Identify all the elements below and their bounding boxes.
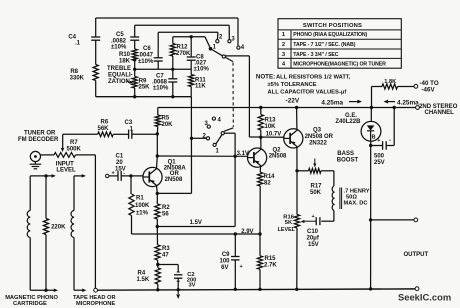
wire R15 to bottom rail <box>258 269 261 291</box>
wire 1.8K to terminal <box>398 84 418 88</box>
label output <box>404 252 429 258</box>
svg-text:6V: 6V <box>221 265 228 271</box>
svg-text:C6: C6 <box>143 46 151 52</box>
wire coil to C10 <box>321 211 334 222</box>
svg-text:TAPE - 7 1/2" / SEC. (NAB): TAPE - 7 1/2" / SEC. (NAB) <box>293 42 355 48</box>
capacitor C1 <box>109 153 126 181</box>
svg-text:5K: 5K <box>285 220 293 226</box>
svg-text:100: 100 <box>219 259 230 265</box>
svg-text:-46V: -46V <box>422 87 436 94</box>
switch S1a contact 3 <box>228 36 236 42</box>
svg-text:1.8K: 1.8K <box>384 79 396 85</box>
svg-text:TAPE - 3 3/4" / SEC: TAPE - 3 3/4" / SEC <box>293 52 339 58</box>
label -22V <box>286 97 300 104</box>
wire C4-R8 <box>95 40 97 64</box>
label treble equalization with arrow <box>107 66 133 85</box>
svg-text:±10%: ±10% <box>138 59 154 65</box>
svg-text:-22V: -22V <box>286 97 300 104</box>
resistor R4 <box>137 265 161 285</box>
svg-text:R6: R6 <box>101 120 109 126</box>
svg-text:270K: 270K <box>176 51 191 57</box>
wire jack to R7 <box>41 154 55 156</box>
label Q2 <box>269 148 287 160</box>
wire R11 bottom <box>190 87 192 97</box>
node line mid EQ (y=69.3) <box>135 68 192 70</box>
wire C6 bottom <box>157 61 159 69</box>
switch positions table <box>278 19 401 68</box>
svg-text:220K: 220K <box>51 225 66 231</box>
resistor 1.8K <box>382 79 398 89</box>
svg-text:2N322: 2N322 <box>309 141 327 147</box>
phono jack J1 <box>30 151 40 161</box>
svg-text:PHONO (RIAA EQUALIZATION): PHONO (RIAA EQUALIZATION) <box>293 32 367 38</box>
svg-text:47: 47 <box>162 253 169 259</box>
potentiometer R16 (level) <box>278 171 300 233</box>
svg-text:±10%: ±10% <box>153 86 169 92</box>
resistor R11 <box>189 75 207 90</box>
label Q3 <box>305 128 334 147</box>
wire C4 column top <box>95 18 97 37</box>
wire 10.7V node <box>249 130 284 138</box>
wire 2.9V line <box>132 229 261 235</box>
label 4.25ma arrow right <box>321 100 362 107</box>
svg-text:2N508 OR: 2N508 OR <box>305 134 334 140</box>
wire R5 bottom <box>156 127 159 134</box>
svg-text:BOOST: BOOST <box>337 157 359 163</box>
svg-text:ZATION: ZATION <box>108 79 130 85</box>
transistor Q2 <box>248 148 267 167</box>
svg-text:B: B <box>372 135 376 141</box>
svg-text:FM DECODER: FM DECODER <box>18 137 59 143</box>
svg-text:TUNER OR: TUNER OR <box>24 131 56 137</box>
svg-text:100K: 100K <box>135 203 150 209</box>
switch S1b contact 4 <box>212 117 221 124</box>
wire phono source bottom <box>30 288 58 292</box>
wire top rail C (to switch contact 2) <box>158 32 218 39</box>
svg-text:.1: .1 <box>75 41 81 47</box>
wire -22V rail <box>158 106 420 110</box>
inductor tape head <box>71 211 74 238</box>
node line R12/C8 (y=36.8) <box>173 35 210 47</box>
wire C9 column <box>234 232 237 256</box>
svg-text:-: - <box>389 138 391 144</box>
svg-text:BASS: BASS <box>337 151 354 157</box>
svg-text:2.7K: 2.7K <box>264 263 277 269</box>
switch S1a wiper <box>212 50 233 62</box>
svg-text:2N508: 2N508 <box>269 153 287 159</box>
svg-text:R7: R7 <box>70 140 78 146</box>
input terminal <box>106 174 109 177</box>
wire 1.5V line <box>157 220 235 227</box>
resistor R6 <box>98 120 114 137</box>
svg-text:LEVEL: LEVEL <box>56 167 76 173</box>
wire feedback vertical <box>190 97 192 194</box>
switch S1b contact 1 <box>213 143 220 154</box>
inductor .7 henry <box>332 186 341 211</box>
svg-text:R14: R14 <box>264 174 276 180</box>
label 3.1V <box>237 151 249 157</box>
ground symbol <box>30 162 42 169</box>
wire C10 to R16 wiper <box>301 220 317 223</box>
svg-text:1.5K: 1.5K <box>137 277 150 283</box>
label 4.25ma arrow left <box>384 100 420 107</box>
capacitor C6 <box>138 46 163 65</box>
svg-text:R13: R13 <box>265 118 277 124</box>
label GE Z40L22B <box>335 113 361 125</box>
wire top rail B (to switch contact 3) <box>135 25 230 39</box>
svg-text:.0047: .0047 <box>138 53 154 59</box>
svg-text:4.25ma: 4.25ma <box>321 100 343 107</box>
potentiometer R17 <box>309 168 323 196</box>
svg-text:C9: C9 <box>222 252 230 258</box>
svg-text:R5: R5 <box>162 116 170 122</box>
potentiometer R9 (treble) <box>132 77 150 91</box>
wire Q3 emitter <box>295 147 298 173</box>
svg-text:Z40L22B: Z40L22B <box>335 119 361 125</box>
svg-text:330K: 330K <box>70 76 85 82</box>
wire S1a wiper output <box>225 56 249 137</box>
capacitor C2 <box>174 272 196 288</box>
svg-text:R3: R3 <box>162 246 170 252</box>
wire C2 to bottom rail <box>177 278 180 291</box>
wire Q1 collector to Q2 base <box>157 155 247 158</box>
svg-text:.1: .1 <box>128 127 134 133</box>
svg-text:R17: R17 <box>311 184 323 190</box>
svg-text:C3: C3 <box>125 120 133 126</box>
svg-text:3V: 3V <box>189 282 196 288</box>
capacitor C3 <box>125 120 134 139</box>
wire S1b to 1.5V corner <box>234 226 236 228</box>
wire R4 to bottom rail <box>156 284 159 291</box>
wire R5 top <box>157 108 159 116</box>
svg-text:25K: 25K <box>139 85 151 91</box>
resistor R5 <box>155 115 173 128</box>
svg-text:±5% TOLERANCE: ±5% TOLERANCE <box>268 82 317 88</box>
resistor R15 <box>257 234 277 269</box>
potentiometer R7 (input level) <box>54 140 82 158</box>
wire Q2 collector <box>259 136 262 150</box>
svg-text:EQUALI-: EQUALI- <box>108 73 133 79</box>
switch S1b contact 3 <box>205 121 211 128</box>
wire R12 bottom <box>171 56 174 71</box>
svg-text:2.9V: 2.9V <box>241 229 253 235</box>
svg-text:MICROPHONE(MAGNETIC) OR TUNER: MICROPHONE(MAGNETIC) OR TUNER <box>293 62 386 68</box>
svg-text:ALL RESISTORS 1/2 WATT,: ALL RESISTORS 1/2 WATT, <box>276 75 351 81</box>
svg-text:Q3: Q3 <box>313 128 322 134</box>
label 2nd stereo channel <box>419 104 458 116</box>
wire EQ bottom rail <box>96 96 192 98</box>
wire R9 to EQ bottom rail <box>133 88 136 98</box>
wire C7 to EQ bottom rail <box>171 82 174 98</box>
wire tape coil bottom <box>74 238 86 292</box>
svg-text:OUTPUT: OUTPUT <box>404 252 429 258</box>
svg-text:C1: C1 <box>116 153 124 159</box>
wire 1.8K branch <box>370 87 382 110</box>
switch S1b contact 2 <box>203 133 210 140</box>
wire Q2 emitter <box>259 166 261 172</box>
resistor R2 <box>155 193 171 219</box>
svg-text:500: 500 <box>374 154 385 160</box>
svg-text:NOTE:: NOTE: <box>256 74 275 81</box>
wire C2 branch <box>158 265 178 272</box>
svg-text:1.5V: 1.5V <box>190 220 202 226</box>
wire bass boost top <box>297 170 309 172</box>
watermark <box>398 292 451 303</box>
wire top rail A (to switch contact 4) <box>96 18 238 46</box>
label tuner or fm decoder <box>18 131 59 144</box>
resistor R10 <box>119 49 137 65</box>
svg-text:11K: 11K <box>195 84 206 90</box>
wire phono source top <box>30 174 56 210</box>
capacitor C7 <box>152 69 177 91</box>
svg-text:R15: R15 <box>265 256 277 262</box>
wire Q1 emitter node <box>156 186 192 196</box>
capacitor 500uF <box>374 138 391 166</box>
switch S1a contact 4 <box>237 45 245 51</box>
svg-text:MAX. DC: MAX. DC <box>344 201 368 207</box>
svg-text:18K: 18K <box>119 59 131 65</box>
wire bottom rail <box>94 287 419 292</box>
wire contact2 stub <box>190 137 207 140</box>
svg-text:4.25ma: 4.25ma <box>397 100 419 107</box>
wire 500uF to rail <box>386 106 396 146</box>
svg-text:56: 56 <box>162 212 169 218</box>
wire output tap <box>369 218 418 222</box>
svg-text:50K: 50K <box>310 190 322 196</box>
label tape head or microphone <box>73 295 116 307</box>
svg-text:20K: 20K <box>162 122 174 128</box>
svg-text:20: 20 <box>116 160 123 166</box>
svg-text:82: 82 <box>264 181 271 187</box>
wire C5-R10 <box>134 40 136 49</box>
wire C1 to base node <box>121 174 143 177</box>
wire R14 to 2.9V node <box>258 186 261 236</box>
resistor 220K <box>43 176 66 290</box>
wire Q1 collector <box>156 154 159 168</box>
wire S1b wiper output <box>224 133 235 226</box>
capacitor C4 <box>68 35 100 47</box>
wire R17 to coil <box>321 171 334 186</box>
svg-text:2N508: 2N508 <box>165 177 183 183</box>
wire R16 to bottom rail <box>295 228 298 291</box>
wire C9 to bottom rail <box>234 260 237 291</box>
switch S1a contact 2 <box>216 34 223 42</box>
svg-text:CHANNEL: CHANNEL <box>425 110 455 116</box>
svg-text:C5: C5 <box>116 32 124 38</box>
transistor Q3 <box>284 129 303 148</box>
svg-text:±10%: ±10% <box>111 45 127 51</box>
label Q1 <box>164 159 187 183</box>
wire Q3 collector <box>295 106 298 130</box>
resistor R12 <box>170 37 191 57</box>
svg-text:56K: 56K <box>98 126 110 132</box>
wiper arrow R17 <box>313 159 316 168</box>
label .7 henry <box>344 189 370 207</box>
svg-text:10K: 10K <box>265 124 277 130</box>
resistor R3 <box>155 227 170 261</box>
wire output transistor emitter <box>369 141 372 147</box>
resistor R14 <box>258 172 276 186</box>
wire collector node vertical <box>156 134 158 156</box>
resistor R13 <box>258 106 276 130</box>
svg-text:MICROPHONE: MICROPHONE <box>76 301 115 307</box>
svg-text:SWITCH POSITIONS: SWITCH POSITIONS <box>303 23 362 29</box>
svg-text:15V: 15V <box>115 166 126 172</box>
wire 500uF branch <box>371 145 383 147</box>
resistor R1 <box>129 176 150 234</box>
svg-text:R1: R1 <box>136 196 144 202</box>
svg-text:±1%: ±1% <box>136 211 149 217</box>
inductor phono cartridge <box>27 211 30 238</box>
wire R7 right to down lead <box>76 155 96 288</box>
svg-text:20μf: 20μf <box>307 236 320 242</box>
label input level <box>56 161 76 173</box>
transistor Q1 <box>143 167 162 186</box>
mechanical linkage dashed <box>232 63 234 128</box>
wire C5 column top <box>134 25 136 37</box>
wire R3-R4 junction <box>156 260 159 266</box>
capacitor C10 <box>307 214 320 248</box>
svg-text:+: + <box>312 214 315 220</box>
capacitor C8 <box>187 37 210 73</box>
svg-text:SeekIC.com: SeekIC.com <box>398 292 451 303</box>
wire tuner line <box>63 133 98 135</box>
svg-text:C10: C10 <box>307 229 319 235</box>
svg-text:LEVEL: LEVEL <box>278 227 296 233</box>
svg-text:+: + <box>377 138 380 144</box>
switch S1b wiper <box>216 128 233 144</box>
ground arrow <box>176 290 180 299</box>
svg-text:R2: R2 <box>162 205 170 211</box>
label magnetic phono cartridge <box>5 295 58 307</box>
svg-text:±10%: ±10% <box>194 67 210 73</box>
svg-text:CARTRIDGE: CARTRIDGE <box>13 301 47 307</box>
wire R6-C3 <box>113 133 128 135</box>
wire R10-R9 with tap <box>133 58 136 76</box>
output transistor GE Z40L22B <box>361 121 381 141</box>
svg-text:500K: 500K <box>67 146 82 152</box>
wire R2 to 1.5V line <box>156 219 159 228</box>
svg-text:TREBLE: TREBLE <box>107 66 131 72</box>
wire R8 to EQ bottom rail <box>95 81 97 97</box>
wire output transistor top <box>370 108 372 122</box>
svg-text:R10: R10 <box>119 52 131 58</box>
svg-text:+: + <box>240 264 243 270</box>
wire phono coil bottom <box>29 238 31 291</box>
switch S1a contact 1 <box>209 45 217 51</box>
svg-text:10.7V: 10.7V <box>266 132 282 138</box>
wire R7 wiper from tuner <box>61 134 64 152</box>
wire C8-R11 <box>190 60 192 74</box>
capacitor C5 <box>111 32 139 51</box>
svg-text:ALL CAPACITOR VALUES-μf: ALL CAPACITOR VALUES-μf <box>268 89 347 95</box>
note text <box>256 74 351 96</box>
wire C6 column <box>157 32 159 58</box>
svg-text:15V: 15V <box>308 242 319 248</box>
svg-text:R12: R12 <box>177 45 189 51</box>
resistor R8 <box>70 65 99 82</box>
svg-text:2: 2 <box>282 42 285 48</box>
capacitor C9 <box>219 252 242 271</box>
wire output vertical <box>370 146 372 289</box>
wire C3 to collector node <box>132 132 159 135</box>
wire tape source top <box>74 174 86 210</box>
label -40 to -46V <box>420 80 439 94</box>
svg-text:25V: 25V <box>374 160 385 166</box>
label bass boost <box>337 151 359 163</box>
svg-text:R4: R4 <box>138 271 146 277</box>
svg-text:R8: R8 <box>70 69 78 75</box>
